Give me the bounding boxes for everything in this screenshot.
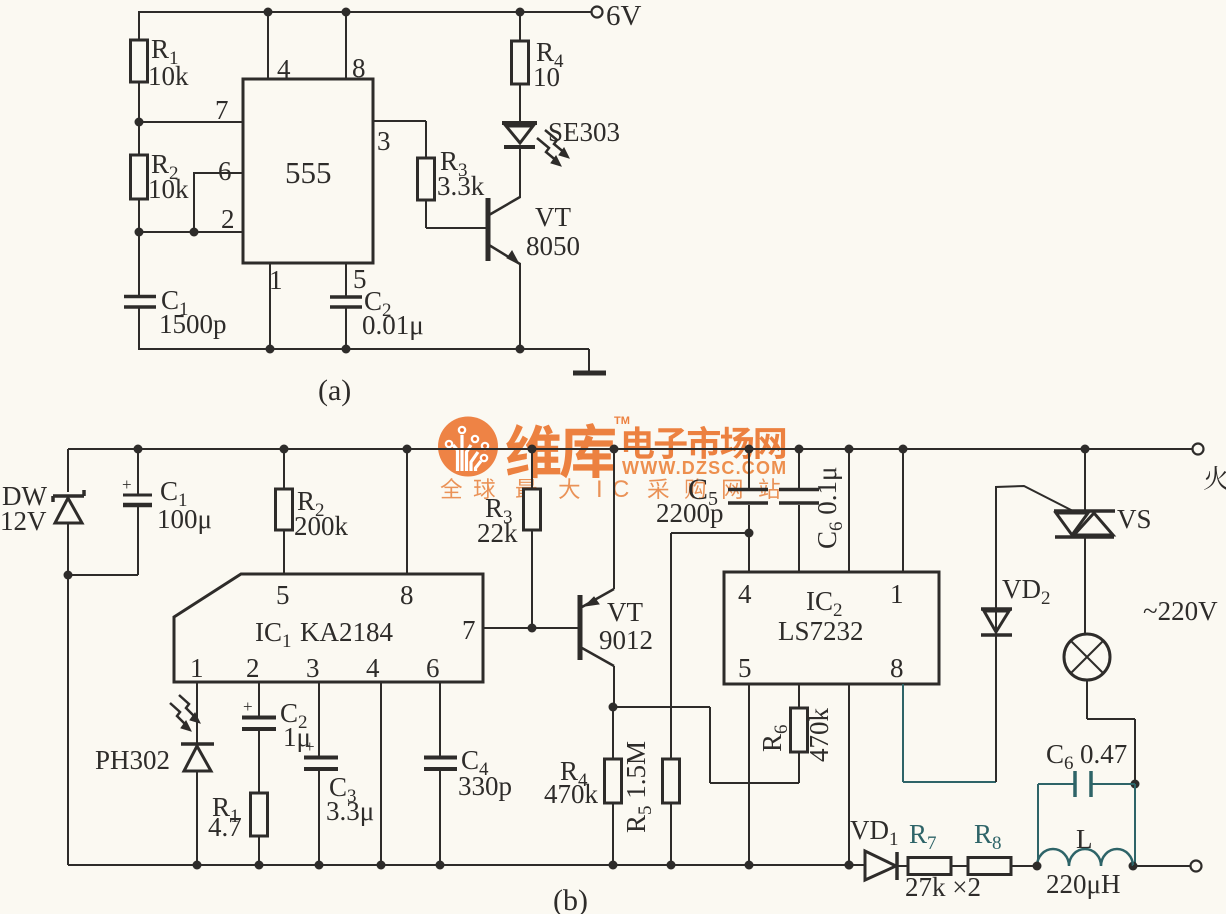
resistor R3 22k: [477, 445, 541, 629]
svg-text:TM: TM: [614, 415, 630, 427]
wire pin 4: [264, 8, 292, 85]
wire to ground: [520, 349, 589, 372]
wire C5 to R5: [671, 533, 749, 759]
wire pin 6: [190, 156, 244, 237]
wire R4 top: [516, 8, 525, 42]
wire IC2 x849 down: [845, 684, 854, 870]
capacitor C6 0.47: [1046, 739, 1135, 797]
wire +6V top rail (a): [140, 11, 592, 13]
capacitor C3 3.3u: [304, 682, 374, 870]
capacitor C2 1u: [242, 682, 311, 793]
wire R7-R8: [951, 865, 968, 867]
svg-text:4: 4: [366, 653, 380, 683]
svg-text:10k: 10k: [148, 61, 189, 91]
decorative watermark text: [506, 415, 787, 478]
triac VS: [1054, 504, 1152, 537]
capacitor C1 100u: [122, 445, 212, 576]
decorative watermark slogan: [441, 476, 780, 503]
wire collector down: [609, 666, 618, 712]
svg-text:9012: 9012: [599, 625, 653, 655]
svg-text:SE303: SE303: [548, 117, 620, 147]
wire pin 2: [139, 204, 243, 234]
wire live top rail (b): [68, 448, 1193, 450]
lamp: [1064, 634, 1110, 680]
wire IC1 pin8 up: [403, 445, 412, 575]
transistor VT 9012: [580, 589, 653, 666]
resistor R1: [131, 34, 190, 91]
wire pin 5: [346, 263, 367, 297]
svg-text:555: 555: [285, 155, 332, 190]
node live terminal: [1193, 444, 1204, 455]
svg-text:1: 1: [890, 579, 904, 609]
svg-text:8: 8: [400, 580, 414, 610]
wire R3 to base: [426, 200, 486, 228]
svg-text:220μH: 220μH: [1046, 869, 1120, 899]
svg-text:4: 4: [738, 579, 752, 609]
capacitor C6 0.1u: [779, 445, 847, 573]
resistor R3 (a): [418, 146, 485, 201]
wire node to bottom rail left: [67, 575, 69, 865]
wire IC1 pin7 to base: [483, 624, 578, 633]
wire lamp down jog: [1087, 680, 1140, 789]
svg-text:VT: VT: [535, 202, 571, 232]
svg-text:3: 3: [377, 126, 391, 156]
resistor R2: [131, 122, 190, 204]
wire IC2 pin1 up: [899, 445, 908, 573]
wire bottom rail (a): [139, 348, 589, 350]
resistor R8: [968, 819, 1011, 875]
svg-text:10k: 10k: [148, 174, 189, 204]
photodiode PH302: [95, 682, 214, 870]
svg-text:470k: 470k: [544, 779, 599, 809]
wire DW to node: [64, 523, 139, 580]
svg-text:6V: 6V: [606, 0, 642, 32]
svg-text:I: I: [596, 476, 603, 503]
wire C6b right to rail: [1129, 784, 1138, 871]
ground: [573, 371, 606, 376]
svg-text:1: 1: [190, 653, 204, 683]
diode LED SE303: [502, 117, 620, 147]
wire emitter down: [516, 263, 525, 354]
transistor VT 8050: [488, 197, 580, 264]
svg-text:0.01μ: 0.01μ: [362, 310, 424, 340]
svg-text:3: 3: [306, 653, 320, 683]
svg-text:L: L: [1076, 824, 1093, 854]
svg-text:+: +: [305, 737, 315, 756]
capacitor C2 (a): [330, 286, 424, 354]
svg-text:7: 7: [462, 615, 476, 645]
svg-text:22k: 22k: [477, 518, 518, 548]
svg-text:VS: VS: [1117, 504, 1152, 534]
svg-text:(b): (b): [553, 884, 588, 914]
svg-text:1: 1: [269, 265, 283, 295]
wire IC2 pin5 down: [745, 684, 754, 870]
svg-text:4.7: 4.7: [208, 812, 242, 842]
node junction R2-C1-pin2: [135, 228, 144, 237]
wire VS to lamp: [1084, 537, 1086, 634]
resistor R5 1.5M: [621, 741, 680, 870]
svg-text:R5 1.5M: R5 1.5M: [621, 741, 656, 833]
capacitor C1 (a): [124, 232, 227, 350]
label live wire 火: [1204, 466, 1226, 490]
wire R1 to node: [138, 82, 140, 122]
svg-text:2: 2: [221, 204, 235, 234]
svg-text:8: 8: [890, 653, 904, 683]
wire R8 to L: [1011, 865, 1037, 867]
svg-text:27k ×2: 27k ×2: [905, 872, 981, 902]
svg-text:12V: 12V: [0, 506, 47, 536]
wire LED to collector: [519, 147, 521, 198]
resistor R1 4.7: [208, 792, 268, 870]
label (b): [553, 884, 588, 914]
diode VD2: [981, 574, 1051, 635]
capacitor C5 2200p: [656, 445, 768, 573]
svg-text:+: +: [122, 475, 132, 494]
inductor L 220uH: [1033, 824, 1134, 899]
label (a): [318, 374, 351, 407]
svg-text:330p: 330p: [458, 771, 512, 801]
zener diode DW 12V: [0, 481, 84, 536]
svg-text:100μ: 100μ: [157, 504, 212, 534]
svg-text:0.47: 0.47: [1080, 739, 1127, 769]
PH302 light arrows: [170, 695, 200, 731]
resistor R4 470k: [544, 707, 622, 870]
svg-text:200k: 200k: [294, 511, 349, 541]
wire emitter to rail: [610, 445, 619, 590]
svg-text:8050: 8050: [526, 231, 580, 261]
decorative watermark logo: [438, 417, 498, 477]
wire R4 to LED: [519, 84, 521, 122]
wire collector to R6 bottom: [613, 707, 799, 783]
svg-text:4: 4: [277, 54, 291, 84]
svg-text:6: 6: [218, 156, 232, 186]
node junction R1-R2-pin7: [135, 118, 144, 127]
IC 555 timer: [243, 79, 373, 263]
wire rail to VS: [1081, 445, 1090, 512]
wire pin 7: [139, 95, 243, 125]
diode VD1: [845, 815, 909, 880]
wire rail to R1: [138, 11, 140, 40]
svg-text:KA2184: KA2184: [300, 617, 393, 647]
svg-text:3.3k: 3.3k: [437, 171, 485, 201]
svg-text:LS7232: LS7232: [778, 616, 864, 646]
svg-text:1500p: 1500p: [159, 309, 227, 339]
svg-text:VT: VT: [607, 597, 643, 627]
IC IC2 LS7232: [724, 572, 939, 684]
svg-text:PH302: PH302: [95, 745, 170, 775]
wire bottom rail (b): [68, 864, 865, 866]
wire IC1 pin4 down: [377, 682, 386, 870]
label 27k x2: [905, 872, 981, 902]
wire R2 to node: [138, 199, 140, 232]
svg-text:8: 8: [352, 53, 366, 83]
svg-text:6: 6: [426, 653, 440, 683]
svg-text:5: 5: [276, 580, 290, 610]
wire pin 8: [342, 8, 366, 84]
svg-text:2: 2: [246, 653, 260, 683]
wire left branch down: [67, 449, 69, 492]
wire C6b left branch: [1038, 784, 1075, 866]
wire rail to IC2 top: [845, 445, 854, 573]
resistor R2 200k: [276, 445, 349, 575]
svg-text:~220V: ~220V: [1143, 596, 1218, 626]
IC IC1 KA2184: [174, 574, 483, 683]
svg-text:(a): (a): [318, 374, 351, 407]
node 6V supply terminal: [592, 0, 642, 32]
svg-text:7: 7: [215, 95, 229, 125]
wire pin 3: [373, 121, 426, 158]
label ~220V: [1143, 596, 1218, 626]
svg-text:3.3μ: 3.3μ: [326, 796, 374, 826]
wire L to terminal: [1133, 861, 1202, 872]
svg-text:470k: 470k: [804, 708, 834, 763]
resistor R7: [908, 819, 951, 875]
svg-text:2200p: 2200p: [656, 498, 724, 528]
svg-text:+: +: [243, 697, 253, 716]
wire IC2 pin8 to VD2 net: [903, 684, 996, 782]
LED light arrows: [537, 130, 569, 166]
resistor R6 470k: [757, 684, 834, 783]
wire VS gate net: [996, 486, 1073, 782]
capacitor C4 330p: [424, 682, 512, 870]
svg-text:10: 10: [533, 62, 560, 92]
wire pin 1: [266, 263, 283, 354]
svg-text:C6 0.1μ: C6 0.1μ: [812, 467, 847, 550]
resistor R4 (a): [512, 37, 565, 92]
svg-text:5: 5: [738, 653, 752, 683]
